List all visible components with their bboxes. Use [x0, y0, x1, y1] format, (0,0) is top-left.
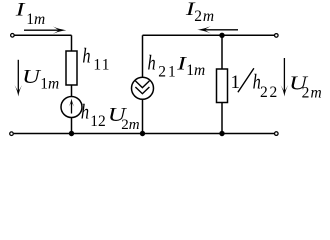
- wire current-source branch top: [142, 35, 144, 77]
- junction node left-bottom: [69, 131, 74, 136]
- wire current source to bottom: [142, 99, 144, 133]
- current source chevron 2: [135, 87, 149, 94]
- current arrow I1m: [24, 29, 61, 31]
- junction node cs-bottom: [140, 131, 145, 136]
- svg-text:h: h: [81, 101, 89, 124]
- terminal bottom-left: [10, 132, 14, 136]
- svg-text:2m: 2m: [121, 117, 140, 133]
- svg-text:U: U: [22, 65, 42, 87]
- svg-text:21: 21: [158, 63, 178, 80]
- svg-text:11: 11: [93, 56, 110, 73]
- current source h21I1m circle: [132, 77, 154, 99]
- wire resistor2 to bottom: [221, 103, 223, 134]
- voltage arrow U1m: [17, 60, 19, 92]
- resistor 1/h22: [217, 69, 228, 103]
- wire source to bottom: [71, 118, 73, 134]
- svg-text:2m: 2m: [194, 8, 215, 25]
- junction node res2-bottom: [219, 131, 224, 136]
- wire resistor to source: [71, 85, 73, 97]
- svg-text:12: 12: [90, 113, 106, 130]
- junction node res2-top: [219, 33, 224, 38]
- svg-text:1m: 1m: [40, 76, 59, 93]
- svg-text:22: 22: [260, 84, 279, 101]
- svg-text:1m: 1m: [186, 62, 205, 79]
- svg-text:2m: 2m: [302, 85, 323, 102]
- terminal bottom-right: [275, 132, 279, 136]
- wire left branch top: [71, 35, 73, 51]
- svg-text:h: h: [148, 51, 156, 74]
- terminal top-right: [275, 34, 279, 38]
- current arrow I2m: [203, 29, 238, 31]
- svg-text:1m: 1m: [26, 11, 45, 28]
- voltage arrow U2m: [283, 58, 285, 92]
- wire resistor2 branch top: [221, 35, 223, 69]
- resistor h11: [66, 51, 77, 85]
- voltage source h12U2m circle: [61, 97, 82, 118]
- terminal top-left: [11, 34, 15, 38]
- voltage source up arrow: [71, 102, 73, 114]
- wire bottom rail: [14, 133, 274, 135]
- wire top-left rail: [14, 34, 71, 36]
- wire top-right rail: [143, 34, 275, 36]
- svg-text:I: I: [15, 0, 27, 20]
- current source chevron 1: [135, 81, 149, 88]
- svg-text:h: h: [82, 45, 90, 68]
